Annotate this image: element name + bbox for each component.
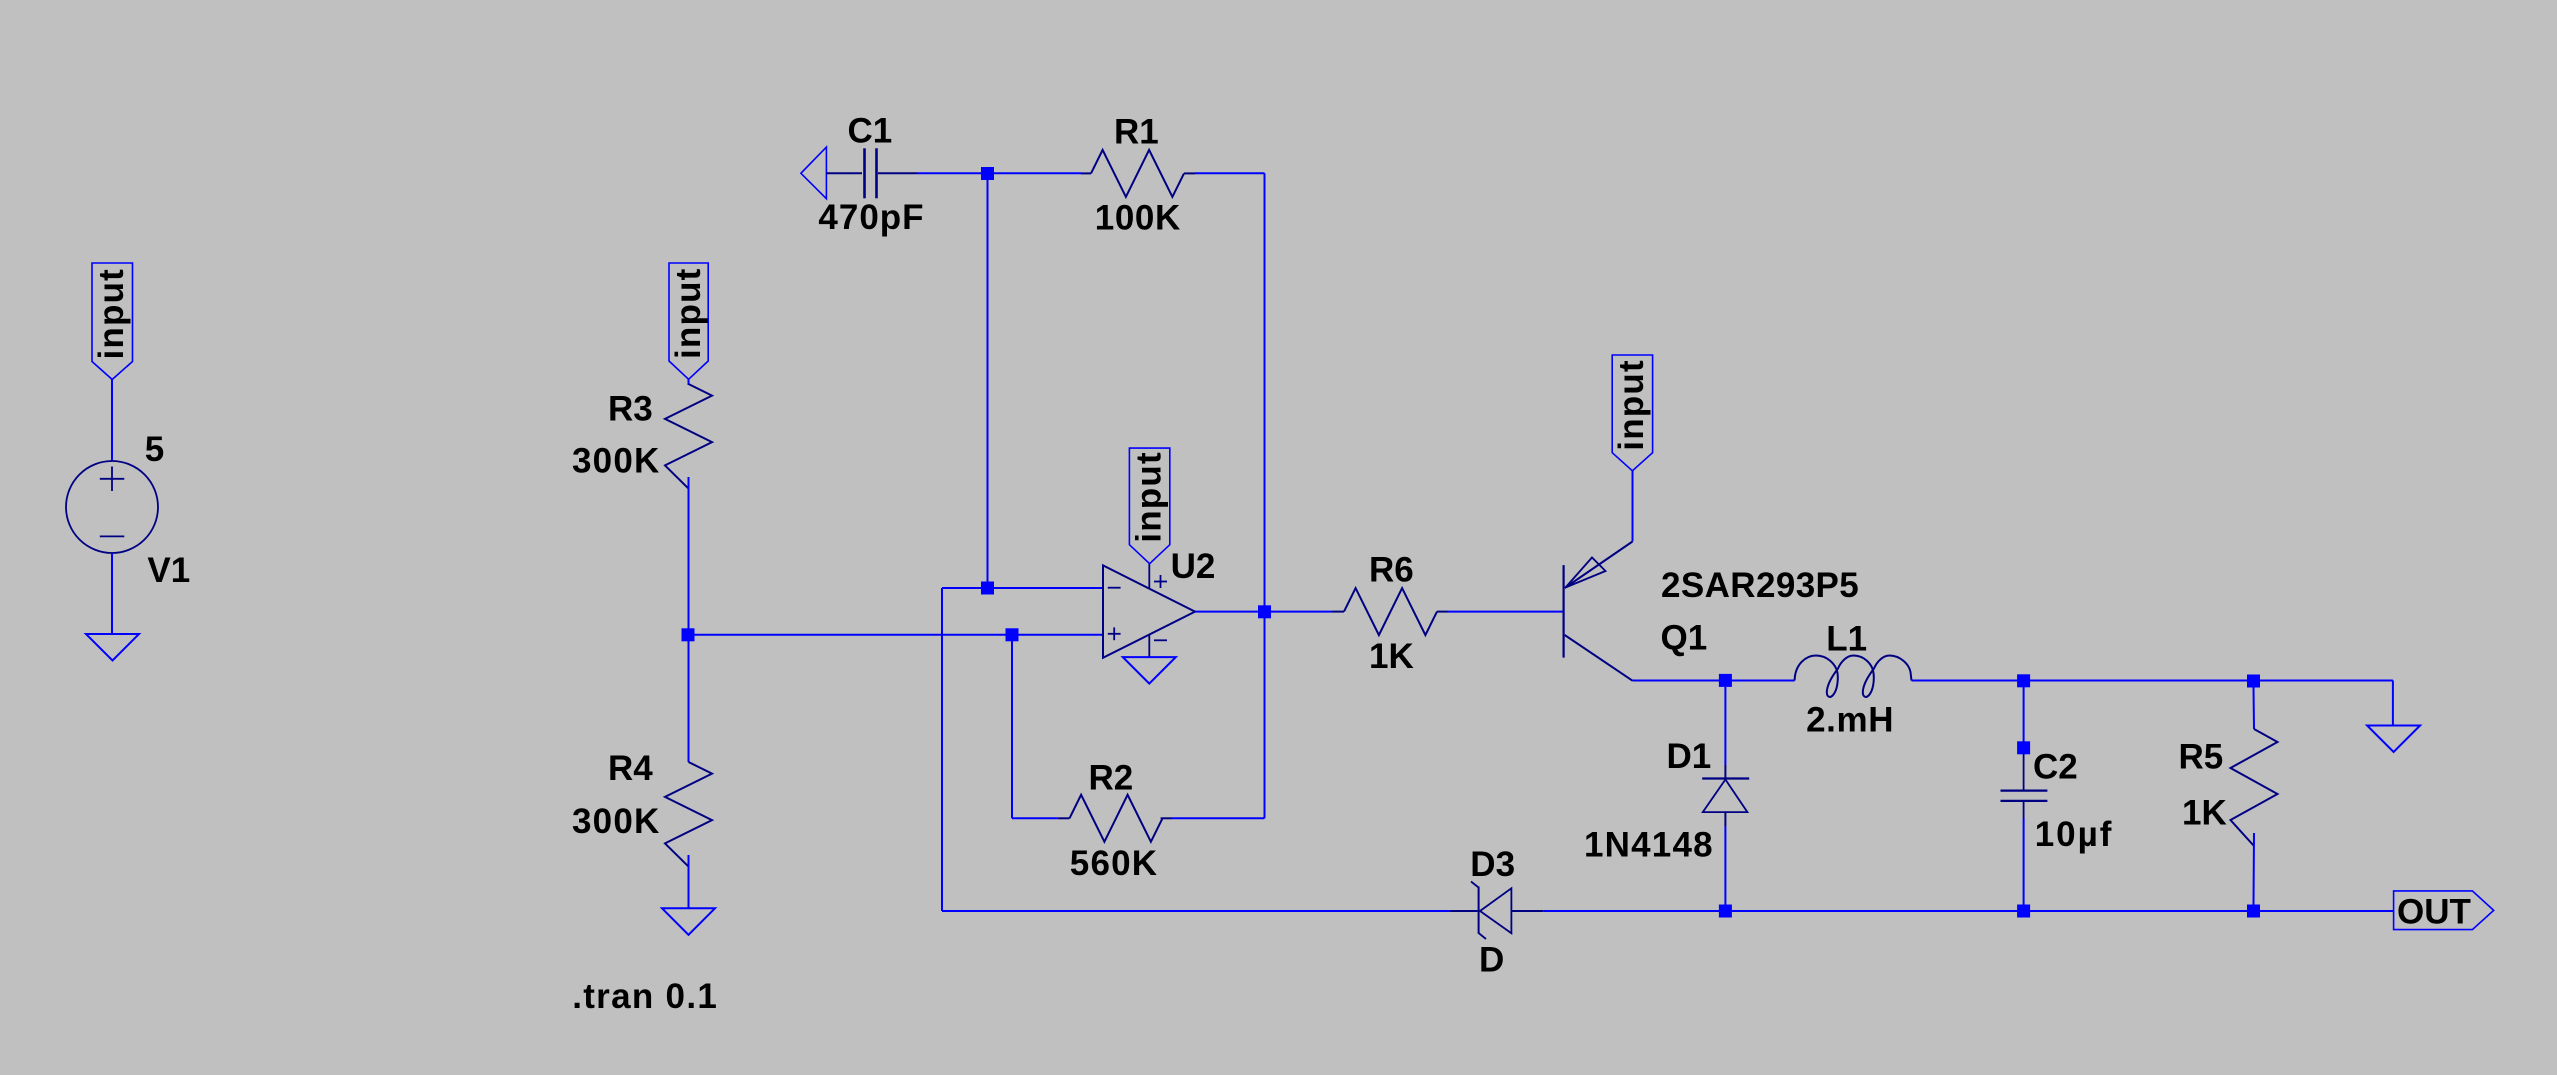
label R1 xyxy=(1114,113,1159,152)
node junction xyxy=(1258,605,1271,618)
value 2.mH xyxy=(1806,701,1894,740)
svg-text:R3: R3 xyxy=(608,390,653,429)
wire xyxy=(987,174,989,589)
wire xyxy=(1270,611,1332,613)
node junction xyxy=(2017,741,2030,754)
svg-text:R6: R6 xyxy=(1369,551,1414,590)
svg-text:2SAR293P5: 2SAR293P5 xyxy=(1661,566,1859,605)
node junction xyxy=(2017,674,2030,687)
svg-text:R4: R4 xyxy=(608,749,653,788)
label R2 xyxy=(1089,759,1134,798)
label R6 xyxy=(1369,551,1414,590)
wire xyxy=(1543,910,2393,912)
wire xyxy=(1195,172,1265,174)
wire xyxy=(2253,833,2256,905)
svg-text:L1: L1 xyxy=(1826,620,1867,659)
value D xyxy=(1479,941,1504,980)
label C2 xyxy=(2033,748,2078,787)
svg-text:V1: V1 xyxy=(147,551,190,590)
diode D3 zener xyxy=(1449,882,1543,940)
wire xyxy=(688,855,690,908)
value 1N4148 xyxy=(1584,826,1714,865)
wire inverting input net xyxy=(942,587,1103,589)
svg-text:R5: R5 xyxy=(2179,738,2224,777)
svg-text:input: input xyxy=(92,268,131,360)
wire xyxy=(1264,173,1266,611)
ground xyxy=(86,634,139,661)
wire emitter xyxy=(1632,471,1634,542)
node junction xyxy=(2247,905,2260,918)
wire xyxy=(2253,687,2256,729)
svg-text:C2: C2 xyxy=(2033,748,2078,787)
svg-text:D: D xyxy=(1479,941,1504,980)
net flag "input" at Q1 xyxy=(1612,355,1652,471)
resistor R1 xyxy=(1081,150,1195,197)
svg-text:R2: R2 xyxy=(1089,759,1134,798)
svg-text:Q1: Q1 xyxy=(1661,619,1708,658)
capacitor C1 xyxy=(801,147,917,199)
label L1 xyxy=(1826,620,1867,659)
svg-text:input: input xyxy=(1612,359,1651,451)
wire xyxy=(1724,826,1726,905)
svg-text:input: input xyxy=(1129,451,1168,543)
label U2 xyxy=(1171,547,1216,586)
svg-text:300K: 300K xyxy=(572,802,660,841)
label R3 xyxy=(608,390,653,429)
node junction xyxy=(2247,675,2260,688)
svg-text:OUT: OUT xyxy=(2397,893,2471,932)
ground xyxy=(2367,726,2420,753)
wire xyxy=(2023,687,2025,742)
wire xyxy=(992,172,1081,174)
wire xyxy=(1731,680,1795,682)
wire xyxy=(1195,611,1259,613)
wire xyxy=(688,477,690,762)
diode D1 xyxy=(1702,765,1749,826)
capacitor C2 xyxy=(2001,754,2048,818)
ground xyxy=(1123,657,1176,684)
wire xyxy=(2259,681,2393,726)
wire xyxy=(917,172,983,174)
value 470pF xyxy=(818,198,924,237)
label D1 xyxy=(1667,737,1712,776)
transistor Q1 PNP xyxy=(1564,542,1633,681)
wire xyxy=(1448,611,1563,613)
net flag "input" at R3 xyxy=(669,263,708,379)
wire xyxy=(1172,817,1265,819)
ground xyxy=(662,908,715,935)
label R5 xyxy=(2179,738,2224,777)
resistor R5 xyxy=(2231,729,2278,846)
svg-text:1K: 1K xyxy=(1369,637,1414,676)
svg-text:5: 5 xyxy=(145,430,164,469)
node junction xyxy=(981,582,994,595)
value 100K xyxy=(1095,199,1181,238)
svg-text:D3: D3 xyxy=(1470,845,1515,884)
svg-text:C1: C1 xyxy=(848,112,893,151)
wire xyxy=(688,379,690,385)
wire xyxy=(111,553,113,634)
label D3 xyxy=(1470,845,1515,884)
svg-text:U2: U2 xyxy=(1171,547,1216,586)
svg-text:.tran 0.1: .tran 0.1 xyxy=(572,977,718,1016)
node junction xyxy=(2017,905,2030,918)
svg-text:D1: D1 xyxy=(1667,737,1712,776)
node junction xyxy=(1006,628,1019,641)
wire collector xyxy=(1633,680,1721,682)
wire xyxy=(1011,635,1013,819)
wire xyxy=(111,380,113,462)
wire xyxy=(1264,612,1266,819)
node junction xyxy=(682,628,695,641)
svg-text:10µf: 10µf xyxy=(2035,815,2114,854)
value 300K xyxy=(572,802,660,841)
wire xyxy=(2029,680,2248,682)
wire xyxy=(1724,687,1726,765)
svg-text:1K: 1K xyxy=(2182,794,2227,833)
port OUT xyxy=(2394,891,2494,932)
svg-text:300K: 300K xyxy=(572,442,660,481)
value 10µf xyxy=(2035,815,2114,854)
value 1K xyxy=(1369,637,1414,676)
node junction xyxy=(1719,905,1732,918)
svg-text:1N4148: 1N4148 xyxy=(1584,826,1714,865)
spice directive .tran 0.1 xyxy=(572,977,718,1016)
net flag "input" at V1 xyxy=(92,263,133,380)
resistor R6 xyxy=(1332,588,1448,635)
wire xyxy=(941,588,943,911)
label R4 xyxy=(608,749,653,788)
svg-text:470pF: 470pF xyxy=(818,198,924,237)
value 300K xyxy=(572,442,660,481)
node junction xyxy=(1719,674,1732,687)
value 1K xyxy=(2182,794,2227,833)
svg-text:560K: 560K xyxy=(1070,844,1158,883)
wire xyxy=(1012,817,1058,819)
net flag "input" at U2 xyxy=(1129,448,1169,564)
inductor L1 xyxy=(1795,656,1912,697)
svg-text:R1: R1 xyxy=(1114,113,1159,152)
voltage source V1 xyxy=(66,461,158,553)
label Q1 xyxy=(1661,619,1708,658)
wire non-inverting input net xyxy=(688,634,1103,636)
value label 5 xyxy=(145,430,164,469)
wire xyxy=(1912,680,2019,682)
label V1 xyxy=(147,551,190,590)
svg-text:100K: 100K xyxy=(1095,199,1181,238)
resistor R2 xyxy=(1058,795,1172,842)
resistor R4 xyxy=(665,762,712,867)
svg-text:2.mH: 2.mH xyxy=(1806,701,1894,740)
value 560K xyxy=(1070,844,1158,883)
wire output rail xyxy=(942,910,1449,912)
label C1 xyxy=(848,112,893,151)
svg-text:input: input xyxy=(669,267,708,359)
op-amp U2 xyxy=(1103,564,1195,658)
wire xyxy=(2023,818,2025,905)
resistor R3 xyxy=(665,384,712,489)
label 2SAR293P5 xyxy=(1661,566,1859,605)
node junction xyxy=(981,167,994,180)
